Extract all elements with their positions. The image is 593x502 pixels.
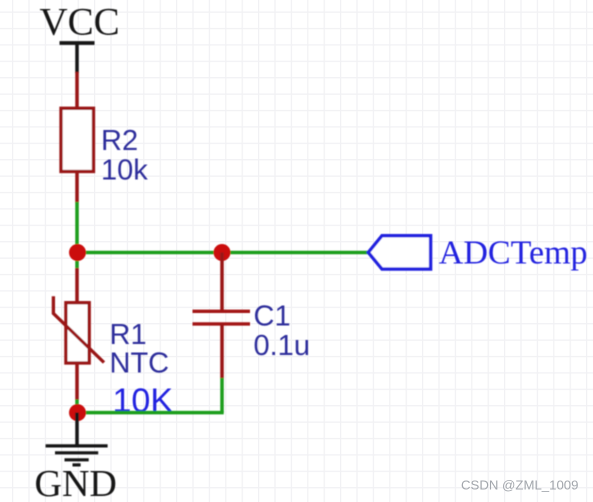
- svg-text:ADCTemp: ADCTemp: [439, 235, 588, 272]
- thermistor R1 NTC diagonal stroke: [53, 296, 104, 362]
- wire VCC to R2: [75, 72, 79, 108]
- ground symbol: [46, 446, 108, 465]
- resistor R2: [61, 108, 94, 171]
- svg-text:R2: R2: [101, 125, 138, 157]
- svg-text:C1: C1: [254, 301, 291, 333]
- wire R1 to node C (green): [75, 400, 79, 413]
- power symbol VCC bar: [60, 43, 95, 73]
- wire node C to ground: [75, 413, 79, 446]
- port ADCTemp symbol: [368, 236, 430, 269]
- junction node C: [69, 404, 86, 421]
- capacitor C1 plates: [193, 311, 251, 324]
- wire node A to port (green horizontal): [77, 251, 369, 255]
- junction node B (C1 tap): [214, 244, 231, 261]
- wire node B to C1 top (red): [220, 253, 224, 312]
- thermistor R1 body: [66, 303, 89, 363]
- wire node A to R1 (red): [75, 268, 79, 303]
- svg-text:CSDN @ZML_1009: CSDN @ZML_1009: [461, 478, 578, 493]
- wire C1 bottom (red): [220, 324, 224, 379]
- svg-text:NTC: NTC: [110, 347, 170, 379]
- junction node A: [69, 244, 86, 261]
- svg-text:10k: 10k: [101, 154, 148, 186]
- wire C1 bottom to green corner: [220, 378, 224, 413]
- wire R2 to node A (green part): [75, 202, 79, 268]
- svg-text:0.1u: 0.1u: [254, 330, 310, 362]
- svg-text:GND: GND: [35, 463, 117, 502]
- wire R2 to node A (red part): [75, 171, 79, 203]
- wire node C to C1 branch (green horizontal): [77, 411, 224, 415]
- wire R1 to node C (red): [75, 363, 79, 400]
- svg-text:VCC: VCC: [40, 1, 120, 44]
- svg-text:R1: R1: [110, 319, 147, 351]
